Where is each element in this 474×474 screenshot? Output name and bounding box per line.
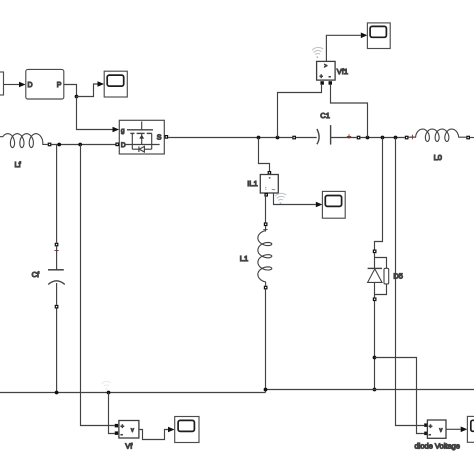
wire L0 to edge [470,137,474,139]
MOSFET block Q1 [119,120,164,154]
wire Vf1 to scope2 [326,35,360,61]
capacitor C1 [292,136,296,140]
wire to scope5 [446,428,461,430]
svg-text:S: S [157,134,162,141]
wire L1 to rail [265,289,267,392]
wire IL1 to scope3 [274,193,316,205]
wire source to PWM block [4,84,20,86]
plus marker L0 [410,135,414,139]
voltage sensor Vf [115,424,119,428]
scope3 [322,191,345,218]
svg-text:g: g [121,128,125,135]
svg-text:L1: L1 [240,254,248,263]
svg-text:IL1: IL1 [247,179,257,188]
node L1 rail [264,388,268,392]
svg-text:-: - [121,432,123,438]
port L0 right [466,136,470,140]
svg-text:C1: C1 [320,111,330,120]
wire gate node to MOSFET g [77,97,113,130]
scope5 (clipped at right edge) [467,416,474,442]
svg-text:diode Voltage: diode Voltage [415,442,460,451]
inductor L0 [409,129,467,142]
ground rail right [266,389,474,391]
voltage sensor diode Voltage [424,423,428,427]
svg-text:-: - [429,432,431,438]
source block (partially cut at left edge) [0,72,4,95]
node diode rail [373,388,377,392]
svg-text:L0: L0 [434,153,442,162]
wire diode branch [375,138,383,250]
node Cf rail [55,391,59,395]
node diode voltage branch [394,136,398,140]
plus marker Cf [54,248,58,252]
svg-text:+: + [121,424,124,430]
svg-text:v: v [131,428,134,434]
node diode branch [381,136,385,140]
wire diode voltage minus [375,358,425,434]
PWM generator block U1 (D/P) [26,69,64,99]
voltage sensor Vf1 [320,81,324,85]
input rail wire [51,144,115,146]
node Vf1 minus branch [366,136,370,140]
port D5 bottom [373,297,377,301]
wire Vf1 minus branch [331,85,368,138]
port MOSFET D [115,143,119,147]
scope1 [104,71,127,97]
ghost wireless arcs [102,381,111,389]
wire rail to IL1 [259,138,270,172]
svg-text:v: v [440,428,443,434]
svg-text:+: + [320,74,323,80]
wire Vf minus [109,393,115,434]
wire to Cf plate [56,246,58,269]
wireless arcs Vf1 [312,47,323,58]
wire P output [64,85,77,97]
node diode bottom [373,356,377,360]
current sensor IL1 [268,171,272,175]
scope4 [175,417,199,443]
step connector [265,390,267,393]
wire S to C1 [168,137,292,139]
port L1 top [264,222,268,226]
wireless arcs IL1 [275,193,286,204]
plus marker L1 [263,227,267,231]
wire C1 to L0 [360,137,404,139]
scope2 [367,23,390,49]
node gate branch [75,95,79,99]
node Vf branch [78,143,82,147]
wire Vf1 plus branch [278,85,322,138]
port Cf top [55,243,59,247]
inductor Lf [0,134,48,148]
svg-text:D: D [28,82,33,89]
svg-text:Cf: Cf [32,270,40,279]
wire diode voltage plus [396,138,425,426]
capacitor Cf [48,269,64,271]
wire Vf to scope4 [139,430,168,440]
svg-text:+: + [429,424,432,430]
svg-text:Lf: Lf [15,160,22,169]
wire Cf to ground rail [56,309,58,393]
port D5 top [373,250,377,254]
svg-text:Vf1: Vf1 [337,67,348,76]
ground rail left [0,392,266,394]
diode D5 with snubber [368,253,389,297]
wire Cf bottom [56,283,58,305]
wire Cf branch down [56,145,58,243]
node Vf minus rail [107,391,111,395]
svg-text:P: P [57,82,62,89]
node IL1 branch [257,136,261,140]
svg-text:>: > [324,64,327,70]
port L0 left [405,136,409,140]
wire Vf plus branch [81,145,115,426]
port Lf right [48,143,52,147]
port Cf bottom [55,305,59,309]
svg-text:D5: D5 [393,272,403,281]
node Vf1 plus branch [276,136,280,140]
port L1 bottom [264,286,268,290]
inductor L1 [258,226,272,286]
wire to scope1 [77,84,98,97]
port MOSFET S [165,135,169,139]
node Cf branch [57,143,61,147]
wire IL1 to L1 [265,197,267,223]
svg-text:D: D [121,142,126,149]
svg-text:Vf: Vf [125,442,133,451]
wire D5 to rail [374,301,376,390]
